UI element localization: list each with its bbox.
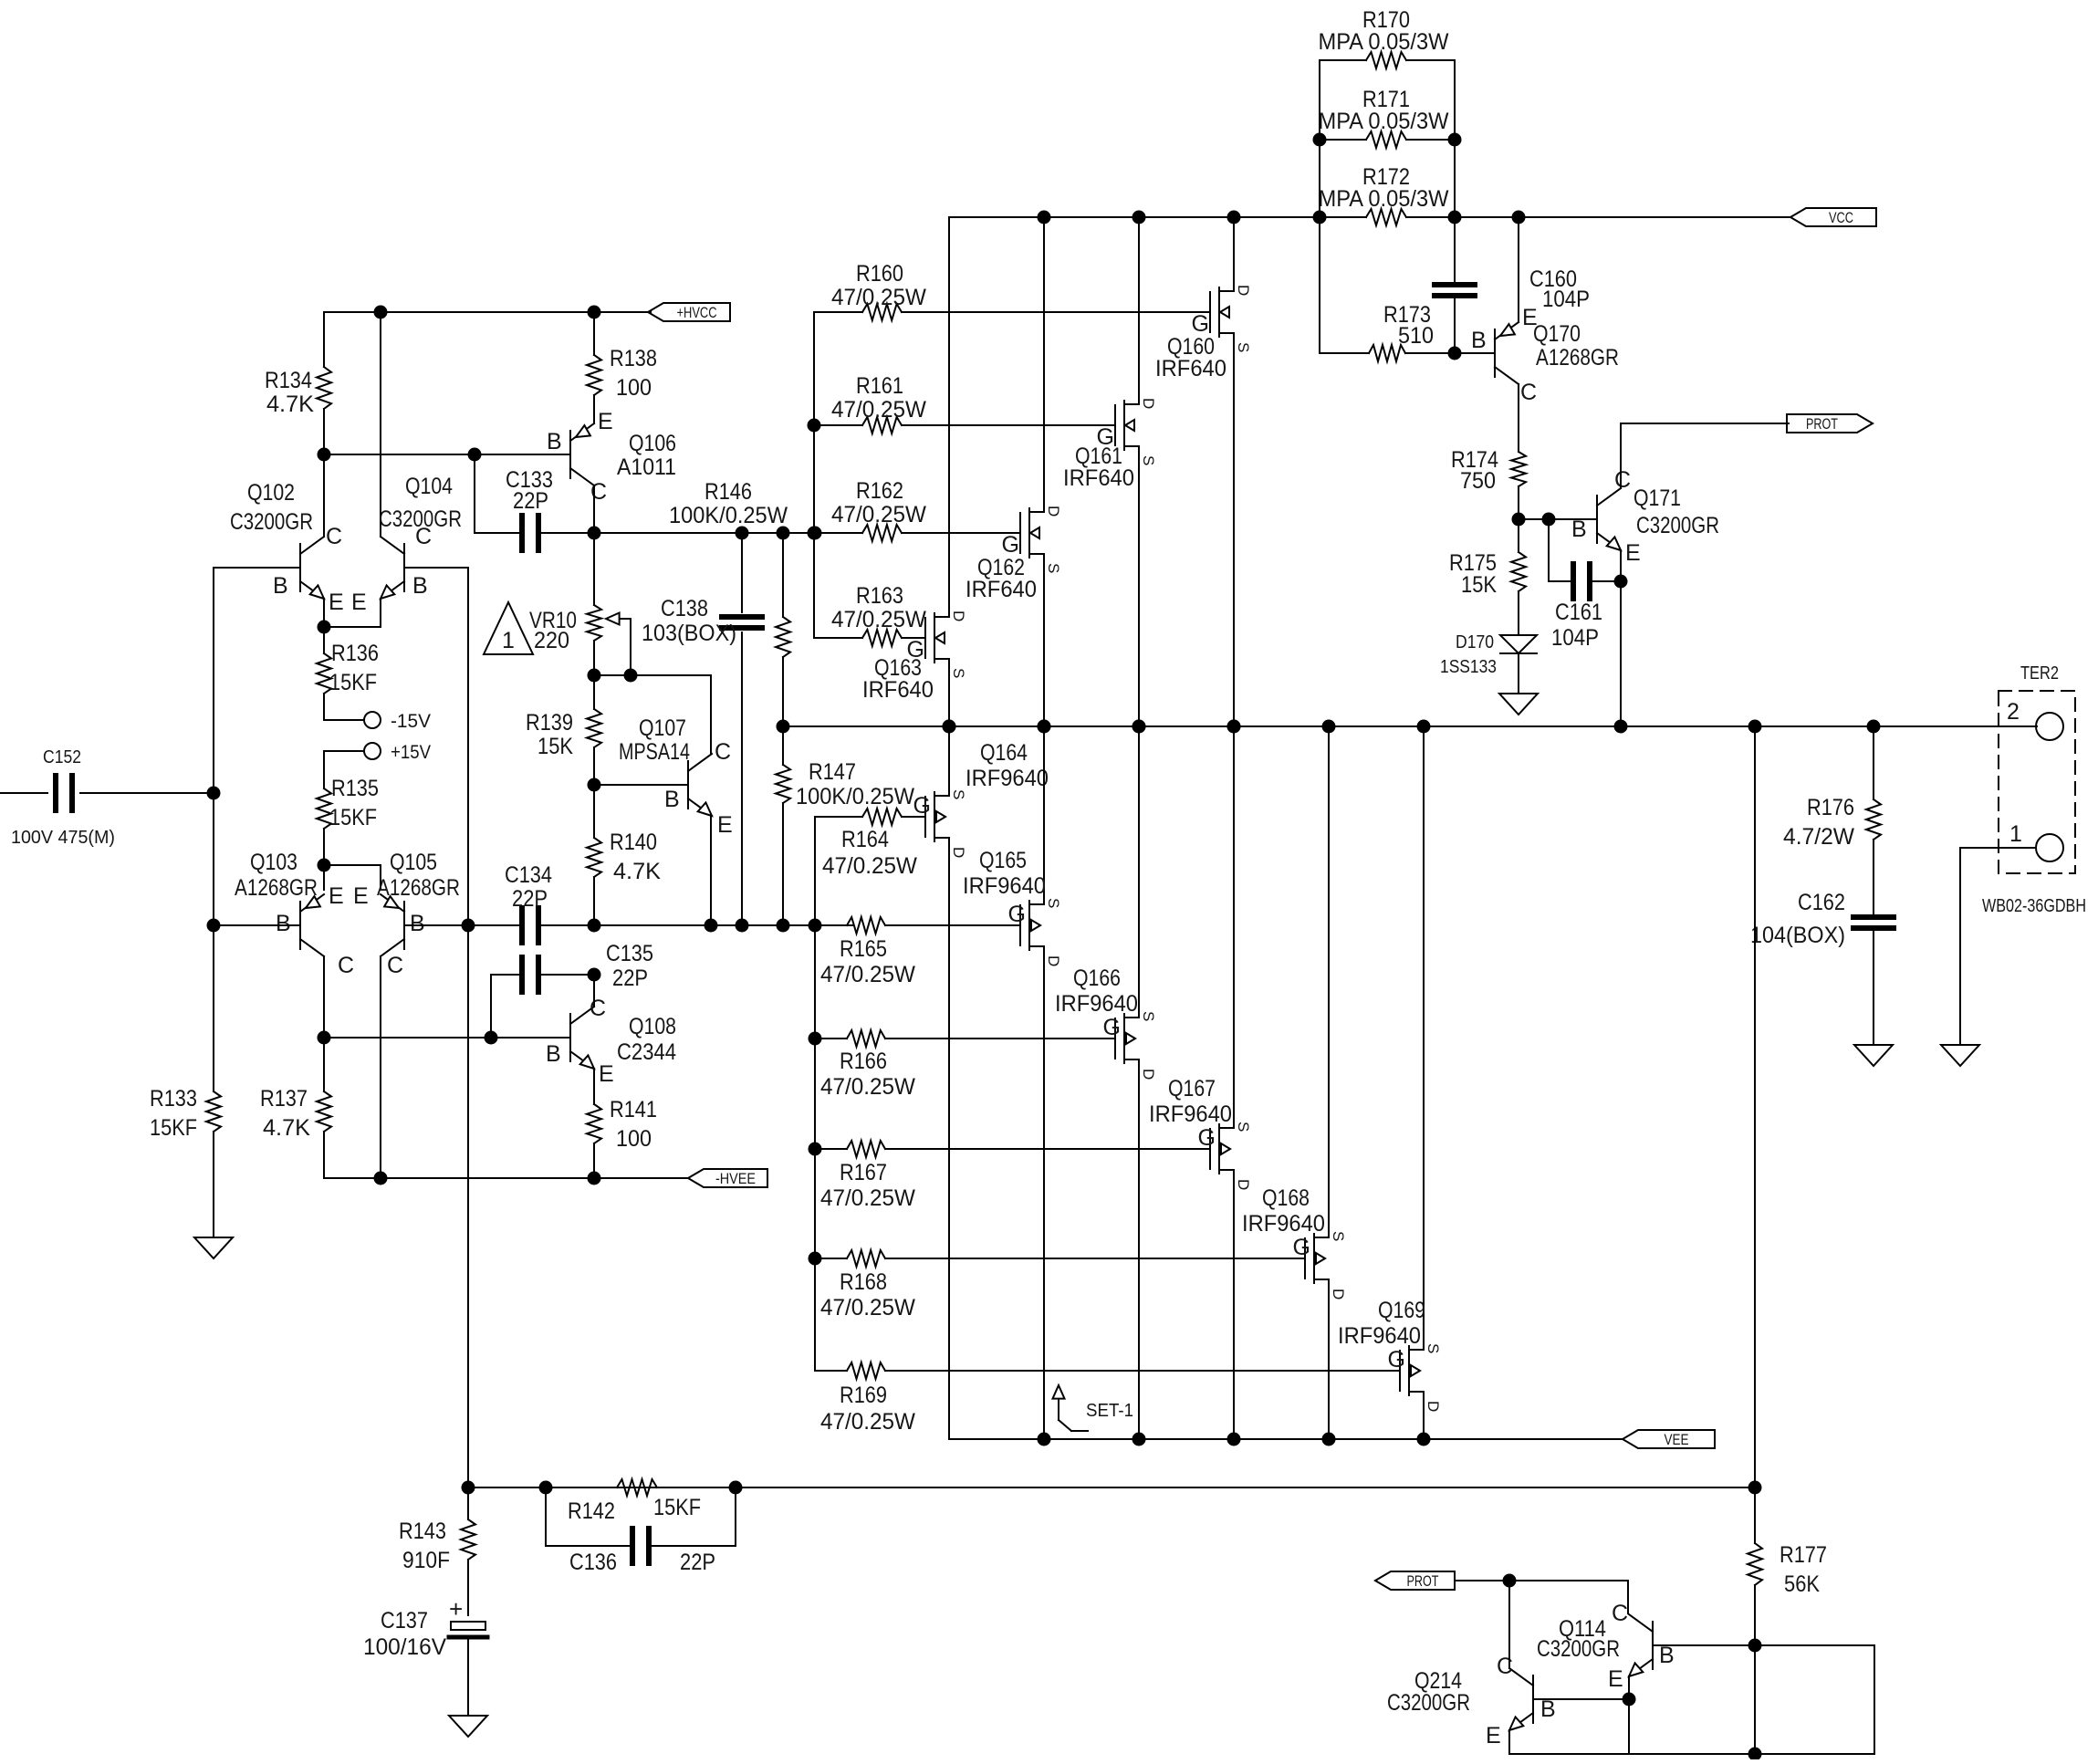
svg-text:C134: C134 xyxy=(505,862,552,888)
svg-text:D: D xyxy=(1235,285,1252,296)
wire -HVEE rail xyxy=(324,1177,688,1179)
wire output rail xyxy=(783,725,2037,727)
svg-text:Q169: Q169 xyxy=(1378,1298,1425,1323)
wire Q164 source column xyxy=(948,726,950,796)
svg-text:E: E xyxy=(329,590,344,615)
MOSFET Q169 (IRF9640) xyxy=(1399,1351,1401,1391)
svg-text:VCC: VCC xyxy=(1829,209,1853,226)
svg-text:IRF640: IRF640 xyxy=(1063,465,1134,491)
node C160 bottom / Q170 base xyxy=(1448,347,1462,360)
svg-text:A1011: A1011 xyxy=(617,454,676,480)
node C135 branch xyxy=(485,1031,498,1045)
svg-text:100K/0.25W: 100K/0.25W xyxy=(669,503,788,528)
svg-text:R133: R133 xyxy=(150,1086,197,1112)
svg-text:R146: R146 xyxy=(705,479,752,505)
ground under R133 xyxy=(194,1237,233,1258)
svg-text:B: B xyxy=(546,1041,561,1067)
svg-text:TER2: TER2 xyxy=(2020,663,2059,684)
node VR10 wiper join xyxy=(624,669,638,683)
resistor R173 xyxy=(1320,352,1369,354)
svg-text:MPA 0.05/3W: MPA 0.05/3W xyxy=(1319,186,1449,212)
svg-text:C136: C136 xyxy=(569,1550,617,1575)
svg-text:D: D xyxy=(950,611,967,621)
svg-text:Q102: Q102 xyxy=(247,480,295,506)
svg-text:IRF9640: IRF9640 xyxy=(1055,991,1138,1017)
svg-text:G: G xyxy=(1293,1235,1310,1260)
wire Q106 base row xyxy=(324,454,570,455)
svg-text:R136: R136 xyxy=(331,641,379,666)
wire +HVCC rail xyxy=(324,311,651,313)
svg-text:E: E xyxy=(598,409,613,434)
svg-text:B: B xyxy=(276,911,291,936)
svg-text:IRF9640: IRF9640 xyxy=(965,766,1049,791)
capacitor C134 xyxy=(468,924,522,926)
svg-text:C: C xyxy=(326,524,342,549)
svg-text:R147: R147 xyxy=(809,759,856,785)
svg-text:104(BOX): 104(BOX) xyxy=(1750,923,1845,948)
node R174/R175 xyxy=(1512,513,1526,527)
svg-text:47/0.25W: 47/0.25W xyxy=(831,397,926,423)
transistor Q214 xyxy=(1532,1675,1534,1723)
diode D170 (1SS133) xyxy=(1500,635,1537,653)
wire Q214 emitter to bottom rail xyxy=(1508,1730,1510,1754)
terminal +15V xyxy=(364,743,381,759)
svg-text:100: 100 xyxy=(616,375,652,401)
node R138 top xyxy=(588,306,601,319)
svg-text:D: D xyxy=(1045,955,1062,966)
svg-text:C162: C162 xyxy=(1798,890,1845,915)
resistor R167 xyxy=(815,1148,847,1150)
node Q104 collector to +HVCC xyxy=(374,306,388,319)
node emitter join top pair xyxy=(318,621,331,634)
svg-text:22P: 22P xyxy=(680,1550,715,1575)
svg-text:Q103: Q103 xyxy=(250,850,297,875)
resistor R138 xyxy=(593,312,595,355)
resistor R164 xyxy=(815,816,862,818)
MOSFET Q165 (IRF9640) xyxy=(1019,905,1021,945)
input column wire xyxy=(213,568,214,925)
svg-text:D: D xyxy=(1425,1401,1442,1412)
svg-text:15KF: 15KF xyxy=(653,1495,701,1520)
wire Q103 base xyxy=(214,924,300,926)
svg-text:47/0.25W: 47/0.25W xyxy=(820,1074,915,1100)
resistor R143 xyxy=(467,1487,469,1519)
node gate feed lower xyxy=(809,919,822,933)
svg-text:C: C xyxy=(590,479,607,505)
resistor R172 xyxy=(1366,209,1406,225)
svg-text:Q165: Q165 xyxy=(979,848,1027,873)
node C134 left / feedback xyxy=(462,919,475,933)
wire Q105 collector xyxy=(380,956,381,1178)
wire Q168 drain column xyxy=(1328,1279,1330,1439)
svg-text:R169: R169 xyxy=(840,1383,887,1408)
svg-text:R139: R139 xyxy=(526,710,573,736)
wire base-node loop xyxy=(1755,1644,1874,1646)
node input junction xyxy=(207,787,221,800)
wire Q166 drain column xyxy=(1138,1059,1140,1439)
svg-text:PROT: PROT xyxy=(1806,415,1838,433)
resistor R175 xyxy=(1518,519,1519,552)
transistor Q102 xyxy=(299,544,301,591)
svg-text:910F: 910F xyxy=(402,1548,450,1573)
resistor R176 xyxy=(1873,726,1874,799)
resistor R161 xyxy=(814,424,862,426)
svg-text:C: C xyxy=(415,524,432,549)
wire feedback line xyxy=(468,1487,1755,1488)
svg-text:C3200GR: C3200GR xyxy=(230,509,313,535)
svg-text:R138: R138 xyxy=(610,346,657,371)
transistor Q106 xyxy=(569,431,571,478)
svg-text:S: S xyxy=(950,668,967,678)
svg-text:104P: 104P xyxy=(1551,625,1599,651)
svg-text:2: 2 xyxy=(2007,699,2020,725)
node R140/Q108C on lower bus xyxy=(588,919,601,933)
node Q103 collector / Q108 base xyxy=(318,1031,331,1045)
wire ladder right column xyxy=(1454,60,1456,281)
svg-text:15K: 15K xyxy=(538,734,573,759)
svg-text:C138: C138 xyxy=(661,596,708,621)
svg-text:IRF9640: IRF9640 xyxy=(1338,1323,1421,1349)
svg-text:MPSA14: MPSA14 xyxy=(619,739,690,765)
svg-text:C3200GR: C3200GR xyxy=(1636,513,1719,538)
svg-text:C: C xyxy=(715,739,731,765)
wire Q164 drain column xyxy=(948,838,950,1439)
resistor R165 xyxy=(847,917,885,934)
capacitor C160 xyxy=(1435,282,1475,287)
svg-text:B: B xyxy=(1540,1696,1556,1722)
connector TER2 (WB02-36GDBH) xyxy=(1999,691,2075,873)
svg-text:B: B xyxy=(273,573,288,599)
svg-text:D: D xyxy=(1235,1179,1252,1190)
svg-text:C: C xyxy=(1497,1654,1513,1679)
annotation SET-1 arrow xyxy=(1058,1391,1059,1420)
svg-text:100: 100 xyxy=(616,1126,652,1152)
flag VCC xyxy=(1790,208,1876,226)
transistor Q114 xyxy=(1652,1622,1654,1669)
wire Q103 collector xyxy=(323,956,325,1038)
wire Q106 collector to bus xyxy=(593,485,595,533)
svg-text:-15V: -15V xyxy=(391,711,431,732)
svg-text:S: S xyxy=(1140,455,1157,465)
svg-text:4.7K: 4.7K xyxy=(613,859,661,884)
svg-text:E: E xyxy=(1486,1723,1501,1748)
wire Q163 drain column xyxy=(948,217,950,617)
resistor R177 xyxy=(1754,726,1756,1487)
wire VEE bus xyxy=(949,1438,1623,1440)
svg-text:Q107: Q107 xyxy=(639,715,686,741)
svg-text:A1268GR: A1268GR xyxy=(1536,345,1619,371)
wire Q167 drain column xyxy=(1233,1170,1235,1439)
svg-text:A1268GR: A1268GR xyxy=(235,875,318,901)
ground under C162 xyxy=(1854,1045,1893,1066)
resistor R170 xyxy=(1320,59,1366,61)
svg-text:B: B xyxy=(1571,517,1587,542)
node C161 left branch xyxy=(1542,513,1556,527)
svg-text:G: G xyxy=(1097,424,1114,450)
terminal -15V xyxy=(324,719,364,721)
svg-text:R176: R176 xyxy=(1807,795,1854,820)
wire Q107 emitter to lower bus xyxy=(710,816,712,925)
resistor R141 xyxy=(593,1069,595,1104)
svg-text:C3200GR: C3200GR xyxy=(1387,1690,1470,1716)
svg-text:R162: R162 xyxy=(856,478,903,504)
svg-text:B: B xyxy=(547,429,562,454)
wire Q161 drain column xyxy=(1138,217,1140,404)
svg-text:47/0.25W: 47/0.25W xyxy=(820,1185,915,1211)
wire Q107 base xyxy=(594,784,688,786)
node Q214 base xyxy=(1623,1693,1636,1707)
wire Q171 base row xyxy=(1519,518,1597,520)
capacitor C136 xyxy=(545,1487,547,1546)
svg-text:15KF: 15KF xyxy=(329,670,377,695)
node VR10 bottom xyxy=(588,669,601,683)
wire Q102 base xyxy=(214,567,300,569)
resistor R166 xyxy=(815,1038,847,1039)
wire Q160 drain column xyxy=(1233,217,1235,291)
flag VEE xyxy=(1623,1430,1715,1448)
wire Q170 collector xyxy=(1518,384,1519,452)
ground under D170 xyxy=(1499,694,1538,715)
flag PROT (top) xyxy=(1787,414,1873,433)
MOSFET Q168 (IRF9640) xyxy=(1304,1238,1306,1279)
svg-text:Q166: Q166 xyxy=(1073,966,1121,991)
trimmer VR10 xyxy=(593,533,595,605)
wire VCC bus xyxy=(949,216,1366,218)
svg-text:PROT: PROT xyxy=(1407,1572,1439,1590)
transistor Q108 xyxy=(569,1014,571,1061)
svg-text:R142: R142 xyxy=(568,1498,615,1524)
svg-text:WB02-36GDBH: WB02-36GDBH xyxy=(1982,896,2086,916)
resistor R174 xyxy=(1511,452,1526,486)
svg-text:C2344: C2344 xyxy=(617,1039,676,1065)
wire Q171 emitter xyxy=(1620,550,1622,726)
wire Q170 emitter to VCC bus xyxy=(1518,217,1519,322)
svg-text:-HVEE: -HVEE xyxy=(715,1170,756,1187)
feedback column wire xyxy=(467,568,469,1487)
svg-text:IRF640: IRF640 xyxy=(1155,356,1226,381)
svg-text:1: 1 xyxy=(2009,821,2022,847)
svg-text:R135: R135 xyxy=(331,776,379,801)
capacitor C138 xyxy=(741,533,743,612)
svg-text:E: E xyxy=(329,883,344,909)
wire Q114 emitter to Q214 base xyxy=(1628,1676,1630,1699)
svg-text:S: S xyxy=(1425,1343,1442,1353)
wire emitter join bottom xyxy=(324,864,381,866)
node C133 branch xyxy=(468,448,482,462)
svg-text:+15V: +15V xyxy=(391,742,431,763)
svg-text:47/0.25W: 47/0.25W xyxy=(820,1295,915,1320)
node R141 bottom xyxy=(588,1172,601,1185)
wire VR10 node to Q107 collector xyxy=(631,674,711,676)
svg-text:C: C xyxy=(387,953,403,978)
wire PROT top xyxy=(1621,423,1789,424)
svg-text:R166: R166 xyxy=(840,1049,887,1074)
wire TER2 pin1 xyxy=(1960,847,2036,849)
svg-text:+HVCC: +HVCC xyxy=(677,304,717,321)
svg-text:E: E xyxy=(717,812,733,838)
svg-text:100V 475(M): 100V 475(M) xyxy=(11,828,115,848)
svg-text:100K/0.25W: 100K/0.25W xyxy=(796,784,914,809)
MOSFET Q161 (IRF640) xyxy=(1114,405,1116,445)
svg-text:S: S xyxy=(1235,342,1252,352)
flag -HVEE xyxy=(688,1169,767,1187)
capacitor C161 xyxy=(1548,519,1550,581)
node R146 top xyxy=(777,527,790,540)
wire Q214 collector to PROT node xyxy=(1508,1581,1510,1668)
svg-text:D: D xyxy=(1140,398,1157,409)
svg-text:103(BOX): 103(BOX) xyxy=(642,621,736,646)
wire gate feed lower column xyxy=(814,817,816,1371)
transistor Q171 xyxy=(1596,496,1598,543)
node R142 left xyxy=(539,1481,553,1495)
resistor R160 xyxy=(814,311,862,313)
svg-text:47/0.25W: 47/0.25W xyxy=(820,1409,915,1435)
svg-text:C: C xyxy=(338,953,354,978)
flag PROT (bottom) xyxy=(1375,1571,1455,1590)
wire lower gate bus xyxy=(594,924,852,926)
svg-text:C3200GR: C3200GR xyxy=(1537,1636,1620,1662)
wire Q163 source column xyxy=(948,659,950,726)
node emitter join bottom pair xyxy=(318,859,331,872)
node input col / Q103 base xyxy=(207,919,221,933)
svg-text:S: S xyxy=(950,789,967,799)
svg-text:D: D xyxy=(1140,1069,1157,1080)
wire Q169 source column xyxy=(1423,726,1425,1350)
capacitor C162 xyxy=(1853,914,1894,920)
svg-text:B: B xyxy=(664,787,680,812)
svg-text:C: C xyxy=(1614,467,1631,493)
wire Q162 source column xyxy=(1043,554,1045,726)
flag +HVCC xyxy=(648,303,730,321)
svg-text:Q168: Q168 xyxy=(1262,1185,1310,1211)
svg-text:G: G xyxy=(913,793,931,819)
svg-text:47/0.25W: 47/0.25W xyxy=(831,285,926,310)
svg-text:1: 1 xyxy=(502,628,515,653)
svg-text:R161: R161 xyxy=(856,373,903,399)
wire Q214 base xyxy=(1533,1698,1629,1700)
node C135 right / Q108 collector xyxy=(588,968,601,982)
svg-text:22P: 22P xyxy=(513,488,548,514)
wire ladder left column xyxy=(1319,60,1320,353)
svg-text:47/0.25W: 47/0.25W xyxy=(831,607,926,632)
svg-text:R143: R143 xyxy=(399,1519,446,1544)
wire Q108 base row xyxy=(324,1037,570,1039)
svg-text:22P: 22P xyxy=(612,966,648,991)
svg-text:C: C xyxy=(590,996,606,1021)
svg-text:15K: 15K xyxy=(1461,572,1497,598)
svg-text:4.7/2W: 4.7/2W xyxy=(1783,824,1854,850)
node R143 top xyxy=(462,1481,475,1495)
node rail left end xyxy=(777,720,790,734)
svg-text:G: G xyxy=(1002,532,1019,558)
node Q214 collector on PROT xyxy=(1503,1574,1517,1588)
wire C133 branch xyxy=(474,454,475,533)
resistor R168 xyxy=(815,1258,847,1259)
svg-text:4.7K: 4.7K xyxy=(263,1115,310,1141)
svg-text:R167: R167 xyxy=(840,1160,887,1185)
svg-text:D: D xyxy=(950,847,967,858)
svg-text:S: S xyxy=(1330,1231,1347,1241)
svg-text:R163: R163 xyxy=(856,583,903,609)
svg-text:D: D xyxy=(1330,1289,1347,1300)
wire Q104 base xyxy=(404,567,468,569)
wire Q165 drain column xyxy=(1043,946,1045,1439)
svg-text:220: 220 xyxy=(534,628,569,653)
svg-text:B: B xyxy=(1659,1643,1675,1668)
transistor Q105 xyxy=(403,902,405,949)
resistor R134 xyxy=(323,312,325,367)
node Q171 emitter on rail xyxy=(1614,720,1628,734)
node C138 top xyxy=(736,527,749,540)
MOSFET Q162 (IRF640) xyxy=(1019,513,1021,553)
node feed/top bus xyxy=(809,527,822,540)
transistor Q107 xyxy=(687,761,689,809)
wire Q162 drain column xyxy=(1043,217,1045,512)
svg-text:B: B xyxy=(1471,328,1487,353)
wire gate feed upper column xyxy=(813,312,815,638)
svg-text:750: 750 xyxy=(1460,468,1496,494)
svg-text:15KF: 15KF xyxy=(329,805,377,830)
svg-text:Q108: Q108 xyxy=(629,1014,676,1039)
svg-text:Q171: Q171 xyxy=(1634,485,1681,511)
resistor R136 xyxy=(323,627,325,653)
node Q107 base xyxy=(588,778,601,792)
svg-text:SET-1: SET-1 xyxy=(1086,1401,1133,1421)
svg-text:IRF9640: IRF9640 xyxy=(1242,1211,1325,1237)
svg-text:510: 510 xyxy=(1398,323,1434,349)
svg-text:Q164: Q164 xyxy=(980,740,1028,766)
transistor Q104 xyxy=(403,544,405,591)
transistor Q170 xyxy=(1494,329,1496,377)
svg-text:22P: 22P xyxy=(512,886,548,912)
node C138 bottom xyxy=(736,919,749,933)
svg-text:E: E xyxy=(353,883,369,909)
svg-text:G: G xyxy=(1388,1347,1405,1373)
svg-text:IRF640: IRF640 xyxy=(965,577,1037,602)
svg-text:+: + xyxy=(449,1595,463,1623)
node Q106 collector on gate bus xyxy=(588,527,601,540)
wire Q169 drain column xyxy=(1423,1392,1425,1439)
wire Q114 base xyxy=(1653,1644,1755,1646)
svg-text:G: G xyxy=(907,637,924,663)
wire emitters of Q102/Q104 join xyxy=(323,599,325,627)
input coupling cap C152 xyxy=(0,792,47,794)
svg-text:C: C xyxy=(1520,380,1537,405)
svg-text:C152: C152 xyxy=(43,747,81,767)
node bottom rail right xyxy=(1748,1748,1762,1761)
MOSFET Q166 (IRF9640) xyxy=(1114,1018,1116,1059)
svg-text:R160: R160 xyxy=(856,261,903,287)
MOSFET Q167 (IRF9640) xyxy=(1209,1129,1211,1169)
svg-text:104P: 104P xyxy=(1542,287,1590,312)
svg-text:E: E xyxy=(1608,1666,1623,1692)
resistor R139 xyxy=(593,675,595,709)
wire C133 to VAS node xyxy=(538,532,594,534)
node Q107 emitter on lower bus xyxy=(705,919,718,933)
wire Q168 source column xyxy=(1328,726,1330,1237)
resistor R162 xyxy=(862,525,902,541)
svg-text:G: G xyxy=(1008,902,1026,927)
svg-text:C161: C161 xyxy=(1555,600,1602,625)
svg-text:Q104: Q104 xyxy=(405,474,453,499)
svg-text:R140: R140 xyxy=(610,830,657,855)
svg-text:IRF9640: IRF9640 xyxy=(963,873,1046,899)
ground under C137 xyxy=(449,1716,487,1737)
svg-text:100/16V: 100/16V xyxy=(363,1634,446,1660)
svg-text:Q106: Q106 xyxy=(629,431,676,456)
wire Q167 source column xyxy=(1233,726,1235,1128)
svg-text:R141: R141 xyxy=(610,1097,657,1122)
